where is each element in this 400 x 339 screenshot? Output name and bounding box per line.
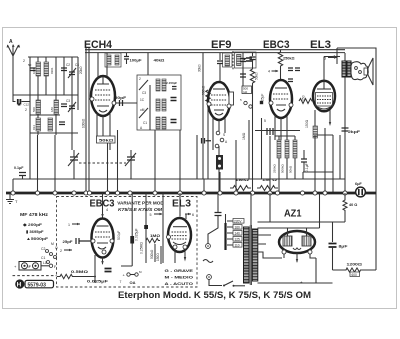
svg-text:AZ1: AZ1 bbox=[284, 209, 302, 220]
capacitor 100pF bbox=[124, 57, 129, 60]
gang dashed bbox=[232, 51, 234, 70]
antenna A bbox=[7, 39, 31, 112]
resistor 0.5M bbox=[57, 269, 95, 279]
capacitor 0.1uF EL3 bbox=[301, 135, 333, 193]
capacitor C3 bbox=[61, 104, 67, 107]
capacitor + resistor right of EF9 bbox=[240, 53, 259, 193]
capacitor left of EL3 dark bbox=[144, 212, 148, 263]
coil bbox=[107, 55, 111, 65]
fuse assembly bbox=[14, 262, 57, 271]
coil bbox=[115, 55, 119, 65]
wire left stub bbox=[13, 94, 30, 96]
svg-text:S: S bbox=[223, 133, 225, 137]
svg-text:C4: C4 bbox=[75, 63, 79, 67]
svg-text:40kΩ: 40kΩ bbox=[154, 59, 165, 63]
svg-text:C1: C1 bbox=[143, 121, 147, 125]
trimmer C4 bbox=[69, 72, 75, 75]
voltage selector bbox=[226, 214, 245, 250]
svg-text:5579-03: 5579-03 bbox=[28, 282, 47, 288]
dashed extension line bbox=[13, 275, 57, 277]
arrow left bbox=[332, 56, 340, 58]
svg-text:G - GRAVE: G - GRAVE bbox=[165, 268, 194, 273]
svg-text:A: A bbox=[9, 39, 13, 45]
arrow 2 bbox=[60, 249, 72, 253]
tuning gang trimmer 2 bbox=[125, 150, 136, 179]
svg-text:50kΩ: 50kΩ bbox=[99, 138, 115, 143]
svg-text:4: 4 bbox=[268, 70, 270, 74]
tube ECH4 bbox=[90, 53, 116, 150]
wire rows bbox=[30, 95, 78, 133]
svg-text:0.025μF: 0.025μF bbox=[135, 228, 139, 241]
resistor 150 ohm bbox=[305, 119, 318, 172]
svg-text:20kΩ: 20kΩ bbox=[79, 66, 83, 74]
wire top rail bbox=[28, 56, 78, 58]
svg-text:A - ACUTO: A - ACUTO bbox=[165, 281, 194, 286]
wire 30k vertical bbox=[198, 53, 204, 179]
svg-text:250: 250 bbox=[302, 95, 306, 101]
svg-text:500: 500 bbox=[32, 107, 36, 112]
svg-text:220V: 220V bbox=[234, 219, 242, 223]
boxed label 500k bbox=[242, 86, 252, 94]
svg-text:500kΩ: 500kΩ bbox=[150, 249, 154, 259]
tuning gang trimmer 1 bbox=[68, 150, 79, 179]
svg-text:150Ω: 150Ω bbox=[156, 253, 160, 261]
mains switch bbox=[224, 281, 233, 286]
tap 220V bbox=[233, 219, 244, 224]
svg-text:M: M bbox=[51, 242, 54, 246]
svg-text:▮ 3695pF: ▮ 3695pF bbox=[26, 229, 44, 234]
resistor 1200 ohm bbox=[333, 262, 377, 277]
capacitor 0.025uF bbox=[87, 265, 112, 284]
svg-text:0.25MΩ: 0.25MΩ bbox=[140, 242, 144, 254]
wire HT centre tap bbox=[250, 193, 252, 225]
svg-text:250kΩ: 250kΩ bbox=[273, 163, 277, 173]
capacitor C12 antenna bbox=[18, 99, 21, 105]
IF coil cans above bbox=[105, 53, 165, 75]
arrow 1 bbox=[68, 223, 80, 227]
output transformer bbox=[332, 55, 351, 77]
svg-text:500kΩ: 500kΩ bbox=[202, 85, 206, 95]
svg-text:EL3: EL3 bbox=[172, 199, 191, 210]
resistors right of EBC3 bbox=[273, 136, 298, 193]
wire top bbox=[219, 53, 221, 60]
IF can 2 box bbox=[235, 52, 257, 68]
coil pair row1 bbox=[156, 79, 160, 91]
coil L5 bbox=[36, 118, 41, 131]
capacitor pair bbox=[288, 68, 300, 71]
svg-text:1MΩ: 1MΩ bbox=[242, 132, 246, 140]
resistor 250 zigzag bbox=[299, 99, 313, 104]
svg-text:oM: oM bbox=[140, 108, 145, 112]
svg-text:150Ω: 150Ω bbox=[305, 119, 309, 128]
resistor 1M bottom bbox=[146, 234, 160, 243]
svg-text:4: 4 bbox=[106, 208, 108, 212]
svg-text:2: 2 bbox=[60, 249, 62, 253]
svg-text:0.1μF: 0.1μF bbox=[305, 163, 309, 172]
wire stubs below bus bbox=[95, 193, 180, 265]
svg-text:0.025μF: 0.025μF bbox=[87, 279, 109, 284]
capacitor 5000pF dark bbox=[121, 212, 139, 266]
svg-text:2: 2 bbox=[139, 77, 141, 81]
top HT rail bbox=[85, 50, 345, 53]
mid rail thin bbox=[13, 179, 345, 193]
bus junction dots bbox=[11, 191, 347, 195]
coil L1 bbox=[36, 62, 41, 76]
wire EF9 cathode drops bbox=[197, 108, 208, 179]
svg-text:6: 6 bbox=[192, 213, 194, 217]
svg-text:140: 140 bbox=[235, 231, 241, 235]
svg-text:30kΩ: 30kΩ bbox=[198, 64, 202, 72]
pin bbox=[289, 103, 293, 107]
svg-text:2: 2 bbox=[23, 59, 25, 63]
capacitor 25pF bbox=[63, 238, 92, 244]
svg-text:7: 7 bbox=[120, 280, 122, 284]
svg-text:0.5MΩ: 0.5MΩ bbox=[71, 269, 89, 274]
svg-text:O: O bbox=[55, 246, 58, 250]
svg-text:25μF: 25μF bbox=[261, 94, 265, 101]
svg-text:1200Ω: 1200Ω bbox=[347, 262, 364, 267]
svg-text:C3: C3 bbox=[142, 91, 146, 95]
wire EBC3 cathode bbox=[261, 118, 263, 179]
svg-text:100kΩ: 100kΩ bbox=[82, 118, 86, 128]
svg-text:C1: C1 bbox=[41, 256, 45, 260]
capacitor row3 bbox=[171, 120, 177, 123]
pin 5 bbox=[90, 97, 94, 101]
svg-text:C2: C2 bbox=[66, 63, 70, 67]
gang dashed link bbox=[79, 162, 126, 164]
svg-text:5: 5 bbox=[264, 119, 266, 123]
wave switch bbox=[41, 242, 58, 265]
capacitor bbox=[30, 68, 36, 71]
tube EL3 top bbox=[299, 48, 337, 126]
dashed variant box bbox=[57, 197, 198, 288]
svg-text:180: 180 bbox=[50, 107, 54, 112]
svg-text:110: 110 bbox=[235, 243, 240, 247]
choke 20k bbox=[79, 48, 89, 80]
wire inner bbox=[149, 85, 151, 130]
svg-text:8μF: 8μF bbox=[339, 244, 349, 249]
capacitor 8uF bbox=[329, 244, 349, 271]
svg-text:+: + bbox=[300, 280, 303, 285]
wires tube bottom bbox=[97, 113, 110, 150]
tap 140 bbox=[233, 231, 242, 236]
svg-text:50pF: 50pF bbox=[115, 96, 127, 100]
resistor 1M horizontal b bbox=[257, 177, 278, 191]
svg-text:160: 160 bbox=[235, 225, 241, 229]
variante note bbox=[117, 201, 163, 213]
coil L-IF2b bbox=[237, 55, 242, 66]
svg-text:6μF: 6μF bbox=[355, 182, 362, 186]
electrolytic 6uF bbox=[355, 182, 365, 197]
capacitor trim bbox=[172, 87, 177, 90]
capacitor C2 bbox=[61, 68, 67, 71]
switch pins bbox=[244, 101, 247, 104]
svg-text:OA: OA bbox=[130, 280, 136, 285]
wire AVC line bbox=[255, 130, 300, 132]
capacitor row2 bbox=[171, 98, 177, 101]
svg-text:5: 5 bbox=[150, 213, 152, 217]
coil L3 bbox=[36, 100, 41, 114]
svg-text:VARIANTE PER MOD: VARIANTE PER MOD bbox=[117, 201, 163, 206]
pin bbox=[269, 101, 273, 105]
svg-text:40 Ω: 40 Ω bbox=[349, 203, 357, 207]
pin bbox=[227, 104, 231, 108]
svg-text:125: 125 bbox=[235, 237, 241, 241]
svg-text:MF 478 kHz: MF 478 kHz bbox=[20, 212, 48, 217]
capacitor 0.1uF left bbox=[14, 166, 26, 179]
resistor 50k under ECH4 bbox=[97, 136, 116, 143]
coil pair row2 bbox=[156, 99, 160, 111]
svg-text:0.1μF: 0.1μF bbox=[14, 166, 24, 170]
svg-text:50kΩ: 50kΩ bbox=[289, 165, 293, 173]
tube EBC3 top bbox=[260, 50, 300, 140]
svg-text:100μF: 100μF bbox=[130, 59, 143, 63]
svg-text:250kΩ: 250kΩ bbox=[283, 57, 295, 61]
svg-text:0301: 0301 bbox=[50, 67, 54, 74]
svg-text:▲5000pF: ▲5000pF bbox=[26, 236, 49, 241]
capacitors on 243 bbox=[242, 53, 244, 86]
potentiometer bbox=[216, 155, 223, 170]
wire bbox=[147, 53, 149, 75]
coil L4 bbox=[54, 100, 59, 114]
maker logo bbox=[15, 279, 53, 288]
wire verticals bbox=[30, 57, 78, 135]
resistor 1M vertical bbox=[242, 120, 249, 179]
resistor labels vertical bbox=[150, 244, 161, 264]
capacitor trim bbox=[246, 58, 252, 61]
svg-text:25pF: 25pF bbox=[63, 240, 74, 244]
vertical drops to bus bbox=[30, 76, 340, 193]
resistor 1M horizontal a bbox=[230, 177, 251, 191]
coil L6 bbox=[48, 118, 53, 131]
svg-text:H: H bbox=[17, 282, 22, 289]
tap 125 bbox=[233, 237, 242, 242]
capacitor feedthrough bbox=[267, 128, 273, 135]
svg-text:M - MEDIO: M - MEDIO bbox=[165, 275, 194, 280]
tube EL3 bottom bbox=[150, 213, 195, 263]
wires bottom + arrow bbox=[315, 110, 330, 126]
svg-text:C3: C3 bbox=[66, 99, 70, 103]
tap 110 bbox=[233, 243, 242, 248]
tap 160 bbox=[233, 225, 242, 230]
svg-text:2kpF: 2kpF bbox=[348, 130, 361, 134]
ground symbol bbox=[6, 193, 18, 204]
svg-text:1MΩ: 1MΩ bbox=[150, 234, 160, 238]
svg-text:1: 1 bbox=[68, 223, 70, 227]
wire antenna down bbox=[13, 56, 16, 102]
svg-text:◆ 200pF: ◆ 200pF bbox=[22, 222, 43, 227]
MF legend bbox=[20, 212, 49, 241]
wires bottom bbox=[213, 117, 225, 150]
phono switch OA bbox=[120, 270, 143, 285]
coil pair row3 bbox=[156, 117, 160, 129]
capacitor 2kpF bbox=[342, 53, 361, 193]
loudspeaker bbox=[351, 58, 373, 85]
pin bbox=[207, 102, 211, 106]
AZ1 wiring bbox=[258, 193, 346, 285]
pin 8 bbox=[112, 101, 116, 105]
svg-text:50kΩ: 50kΩ bbox=[255, 72, 259, 80]
frame top right bbox=[337, 48, 376, 270]
svg-text:2·150pF: 2·150pF bbox=[166, 81, 177, 85]
power transformer bbox=[244, 225, 258, 285]
svg-text:K75/S E K75/S OM: K75/S E K75/S OM bbox=[118, 207, 162, 212]
svg-text:1C: 1C bbox=[140, 98, 145, 102]
coil L-IF2a bbox=[225, 55, 230, 66]
svg-text:50: 50 bbox=[28, 63, 32, 67]
svg-text:C12: C12 bbox=[24, 103, 30, 107]
wire tube top bbox=[98, 53, 107, 78]
coil L2 bbox=[44, 62, 49, 76]
cluster value labels bbox=[32, 67, 54, 130]
trimmer bbox=[69, 106, 75, 109]
svg-text:500pF: 500pF bbox=[117, 231, 121, 240]
IF transformer box 1 bbox=[115, 75, 181, 130]
capacitor pair bbox=[202, 138, 212, 144]
svg-text:600: 600 bbox=[352, 273, 358, 277]
svg-text:C2: C2 bbox=[41, 247, 45, 251]
svg-text:Eterphon Modd. K 55/S, K 75/S,: Eterphon Modd. K 55/S, K 75/S, K 75/S OM bbox=[118, 290, 311, 300]
resistor 40 ohm bbox=[343, 193, 357, 222]
svg-text:2: 2 bbox=[25, 108, 27, 112]
tube EF9 bbox=[207, 51, 256, 193]
svg-text:014: 014 bbox=[32, 125, 36, 130]
main ground bus bbox=[6, 192, 376, 195]
screen contacts bbox=[216, 131, 220, 135]
tone labels bbox=[165, 268, 194, 286]
pickup branch bbox=[203, 193, 245, 287]
svg-text:1000: 1000 bbox=[32, 67, 36, 74]
tube AZ1 bbox=[279, 228, 315, 254]
capacitor bbox=[59, 122, 65, 125]
capacitor grid bbox=[217, 61, 223, 64]
resistor 500k EF9 grid bbox=[202, 85, 211, 105]
RF input coils group bbox=[13, 57, 79, 135]
tube EBC3 bottom bbox=[91, 206, 114, 265]
svg-text:500kΩ: 500kΩ bbox=[281, 163, 285, 173]
